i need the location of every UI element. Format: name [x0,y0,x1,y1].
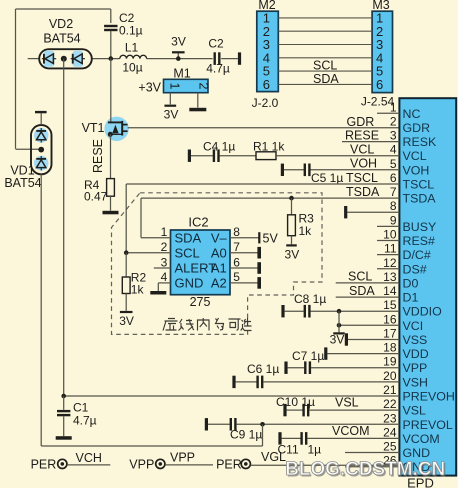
svg-text:VSH: VSH [403,375,428,389]
node VD1 center tap [38,147,44,153]
wire EPD pin 1 stub [377,112,399,114]
wire VD1 top terminal [40,113,42,125]
ground C1 [56,436,72,440]
svg-text:SDA: SDA [349,284,375,298]
IC IC2 275 temp sensor [171,230,231,295]
svg-text:21: 21 [383,383,397,397]
connector M2 J-2.0 [257,11,279,91]
svg-text:13: 13 [383,270,397,284]
svg-text:TSCL: TSCL [346,171,378,185]
diode VD1 BAT54 dual [31,125,52,174]
svg-text:VCH: VCH [76,451,102,465]
svg-text:17: 17 [383,327,397,341]
svg-text:4: 4 [390,143,397,157]
wire VSH chain C6 to EPD pin20 [232,376,235,388]
svg-text:VOH: VOH [403,163,430,177]
capacitor C2 4.7u [214,52,216,65]
svg-text:GND: GND [175,276,204,291]
svg-text:VT1: VT1 [82,121,105,135]
svg-text:12: 12 [383,256,397,270]
svg-text:VCOM: VCOM [403,432,440,446]
wire PREVOL chain C9 to EPD pin23 [205,418,208,430]
terminal VPP VPP [156,459,165,468]
connector M3 J-2.54 [372,11,392,92]
svg-text:SCL: SCL [313,59,337,73]
wire IC2 A1 pin6 to jumper [230,267,258,269]
svg-text:TSCL: TSCL [403,178,435,192]
svg-text:VD2: VD2 [49,17,73,31]
svg-text:PREVOH: PREVOH [403,390,455,404]
wire VDDIO chain C8 to EPD pin15 [281,305,284,317]
node rail junction C2/VT1 [109,56,114,61]
svg-text:1k: 1k [299,224,313,238]
wire main rail [28,58,40,60]
wire IC2 A2 pin5 to jumper [230,282,258,284]
svg-text:NC: NC [403,107,421,121]
svg-text:C6 1µ: C6 1µ [247,362,279,376]
svg-text:1: 1 [161,225,168,239]
svg-text:R1 1k: R1 1k [253,140,285,154]
wire M1 pin2 to ground [197,93,199,108]
svg-text:J-2.0: J-2.0 [252,96,279,110]
svg-text:2: 2 [390,114,397,128]
svg-text:1: 1 [168,83,182,90]
svg-text:C8 1µ: C8 1µ [294,292,326,306]
wire IC2 SCL pin2 [126,252,170,254]
svg-text:3V: 3V [330,333,345,347]
wire VOH chain C5 to EPD pin5 [281,164,284,176]
svg-text:23: 23 [383,411,397,425]
wire VDDIO/VCI to 3V [338,311,340,332]
svg-text:VCOM: VCOM [332,424,370,438]
svg-text:5: 5 [233,270,240,284]
wire M2 pin1 to M3 pin1 [278,17,372,19]
wire IC2 ALERT pin3 stub [154,267,171,269]
node SCL R2 junction [124,250,129,255]
svg-text:2: 2 [197,83,211,90]
svg-text:PREVOL: PREVOL [403,418,453,432]
svg-text:C2: C2 [208,37,224,51]
svg-text:275: 275 [190,295,211,309]
svg-text:VDDIO: VDDIO [403,305,443,319]
svg-text:RESE: RESE [91,139,105,173]
svg-text:V–: V– [211,230,228,245]
svg-text:SCL: SCL [175,245,200,260]
svg-text:SDA: SDA [175,230,202,245]
wire EPD pin 10 stub [377,240,399,242]
svg-text:6: 6 [263,77,270,92]
svg-text:L1: L1 [125,41,139,55]
node rail 3V junction [176,56,181,61]
svg-text:7: 7 [390,185,397,199]
wire top loop VD1 tap to C2 [16,8,111,10]
wire VCI to EPD pin16 [339,324,399,326]
svg-text:VCI: VCI [403,319,424,333]
svg-text:10: 10 [383,228,397,242]
svg-text:16: 16 [383,312,397,326]
svg-text:TSDA: TSDA [346,185,380,199]
svg-text:5: 5 [390,157,397,171]
svg-text:A0: A0 [211,245,227,260]
svg-text:VSL: VSL [335,396,359,410]
svg-text:C5 1µ: C5 1µ [311,171,343,185]
svg-text:BLOG.CDSTM.CN: BLOG.CDSTM.CN [285,458,445,480]
svg-text:BAT54: BAT54 [43,32,80,46]
svg-text:8: 8 [233,225,240,239]
svg-text:4.7µ: 4.7µ [206,62,230,76]
resistor R3 1k [289,196,294,201]
svg-text:25: 25 [383,440,397,454]
capacitor C1 4.7u [61,394,66,399]
svg-text:10µ: 10µ [122,61,142,75]
svg-text:GDR: GDR [347,115,375,129]
svg-text:D/C#: D/C# [403,248,431,262]
wire TSCL from IC2 SCL to EPD pin6 [126,183,399,185]
node PREVOL junction [260,422,265,427]
wire IC2 GND pin4 to ground [158,282,170,284]
svg-text:1µ: 1µ [308,443,322,457]
svg-text:24: 24 [383,425,397,439]
svg-text:+3V: +3V [138,81,161,95]
svg-text:11: 11 [384,242,397,256]
svg-text:5V: 5V [263,231,279,245]
inductor L1 10u [120,55,147,58]
svg-text:TSDA: TSDA [403,192,437,206]
svg-text:VCL: VCL [350,143,374,157]
wire EPD pin8 with terminator [344,206,347,218]
wire GDR VT1 to EPD pin2 [128,127,400,129]
wire IC2 SDA pin1 [141,237,171,239]
svg-text:C7 1µ: C7 1µ [292,349,324,363]
svg-text:VPP: VPP [403,361,428,375]
wire VD2 tap down to C1 node [63,59,65,396]
wire M2 pin2 to M3 pin2 [278,30,372,32]
svg-text:3V: 3V [164,108,179,122]
wire M2 pin4 to M3 pin4 [278,57,372,59]
svg-text:14: 14 [383,284,397,298]
terminal bar rail end [238,52,241,64]
dashed optional region outline [112,193,323,335]
svg-text:RESE: RESE [345,128,379,142]
node VDDIO junction [337,309,342,314]
node VD2 center tap [61,56,67,62]
svg-text:M1: M1 [173,67,190,81]
svg-text:C10 1µ: C10 1µ [276,395,315,409]
wire VD1 bottom to bottom rail [40,174,42,446]
svg-text:0.47: 0.47 [84,190,108,204]
ground R4 [103,211,119,215]
wire VCL chain C4 R1 to EPD pin4 [188,150,191,162]
svg-text:VCL: VCL [403,149,427,163]
wire bottom rail [41,445,262,447]
wire EPD pin26 stub [345,466,399,468]
svg-text:D0: D0 [403,276,419,290]
svg-text:8: 8 [390,199,397,213]
svg-text:C9 1µ: C9 1µ [230,428,262,442]
svg-text:VSS: VSS [403,333,428,347]
svg-text:0.1µ: 0.1µ [119,24,143,38]
svg-text:1k: 1k [131,283,145,297]
wire SCL to EPD pin13 [336,282,400,284]
svg-text:VSL: VSL [403,404,427,418]
svg-text:BUSY: BUSY [403,220,437,234]
svg-text:2: 2 [161,240,168,254]
svg-text:20: 20 [383,369,397,383]
wire EPD pin 11 stub [377,254,399,256]
svg-text:4: 4 [161,270,168,284]
svg-text:C1: C1 [73,401,89,415]
svg-text:4.7µ: 4.7µ [73,414,97,428]
svg-text:BAT54: BAT54 [4,176,41,190]
wire IC2 A0 pin7 to jumper [230,252,258,254]
svg-text:VOH: VOH [350,157,377,171]
svg-text:SCL: SCL [348,270,372,284]
wire IC2 V- pin8 to 5V [230,237,259,239]
wire EPD pin 9 stub [377,225,399,227]
svg-text:VPP: VPP [170,451,195,465]
wire EPD pin 12 stub [377,268,399,270]
ground M1 pin2 [189,108,206,112]
wire VPP stub [165,464,213,466]
terminal PER VCH [58,459,67,468]
wire M1 pin1 to 3V [169,93,171,105]
label optional note chinese [163,318,252,331]
svg-text:3V: 3V [171,35,186,49]
wire M2 pin6 to M3 pin6 [278,83,372,85]
svg-text:19: 19 [383,355,397,369]
wire VT1 source to R4 [110,134,112,178]
svg-text:6: 6 [376,77,383,92]
node VT1 gate [108,132,113,137]
resistor R2 1k [125,253,127,277]
svg-text:RESK: RESK [403,135,437,149]
svg-text:VGL: VGL [261,450,286,464]
svg-text:DS#: DS# [403,262,427,276]
svg-text:1: 1 [390,100,397,114]
svg-text:VDD: VDD [403,347,429,361]
wire PREVOL down to bottom rail [262,424,264,446]
wire RESE to EPD pin3 [342,141,399,143]
resistor R1 1k [256,152,276,160]
svg-text:D1: D1 [403,291,419,305]
wire M2 pin3 to M3 pin3 [278,44,372,46]
wire VCOM chain C11 to EPD pin24 [278,432,281,444]
svg-text:PER: PER [216,458,242,472]
wire VPP chain C7 to EPD pin19 [284,362,287,374]
svg-text:A2: A2 [211,276,227,291]
wire VCH stub [67,464,110,466]
svg-text:RES#: RES# [403,234,435,248]
wire VDD to EPD pin18 [324,347,327,359]
svg-text:3V: 3V [285,248,300,262]
svg-text:3: 3 [390,129,397,143]
svg-text:VPP: VPP [129,458,154,472]
svg-text:3V: 3V [119,314,134,328]
svg-text:18: 18 [383,341,397,355]
wire TSDA from IC2 SDA to EPD pin7 [141,197,399,199]
wire VGL stub [251,464,400,466]
svg-text:A1: A1 [211,261,227,276]
power flag 3V on rail [177,53,179,58]
connector EPD [399,98,456,475]
resistor R4 0.47 [107,179,115,197]
transistor VT1 MOSFET [104,117,128,141]
svg-text:6: 6 [390,171,397,185]
svg-text:3: 3 [161,255,168,269]
svg-text:6: 6 [233,255,240,269]
terminal PER VGL [241,459,250,468]
capacitor C2 0.1u [110,9,112,23]
wire SDA to EPD pin14 [336,296,400,298]
node VCI junction [337,323,342,328]
svg-text:9: 9 [390,213,397,227]
svg-text:22: 22 [383,397,397,411]
svg-text:15: 15 [383,298,397,312]
wire M2 pin5 to M3 pin5 [278,70,372,72]
svg-text:7: 7 [233,240,240,254]
svg-text:GDR: GDR [403,121,431,135]
svg-text:C4 1µ: C4 1µ [203,140,235,154]
connector M1 [164,79,209,92]
wire VSS 3V to EPD pin17 [345,333,348,345]
diode VD2 BAT54 dual [39,49,92,68]
wire EPD pin25 stub [345,452,399,454]
wire VSL chain C10 to EPD pin22 [283,404,286,416]
svg-text:IC2: IC2 [188,215,208,230]
wire PREVOH from C1 node to EPD pin21 [64,395,400,397]
svg-text:SDA: SDA [313,72,339,86]
svg-text:PER: PER [31,458,57,472]
